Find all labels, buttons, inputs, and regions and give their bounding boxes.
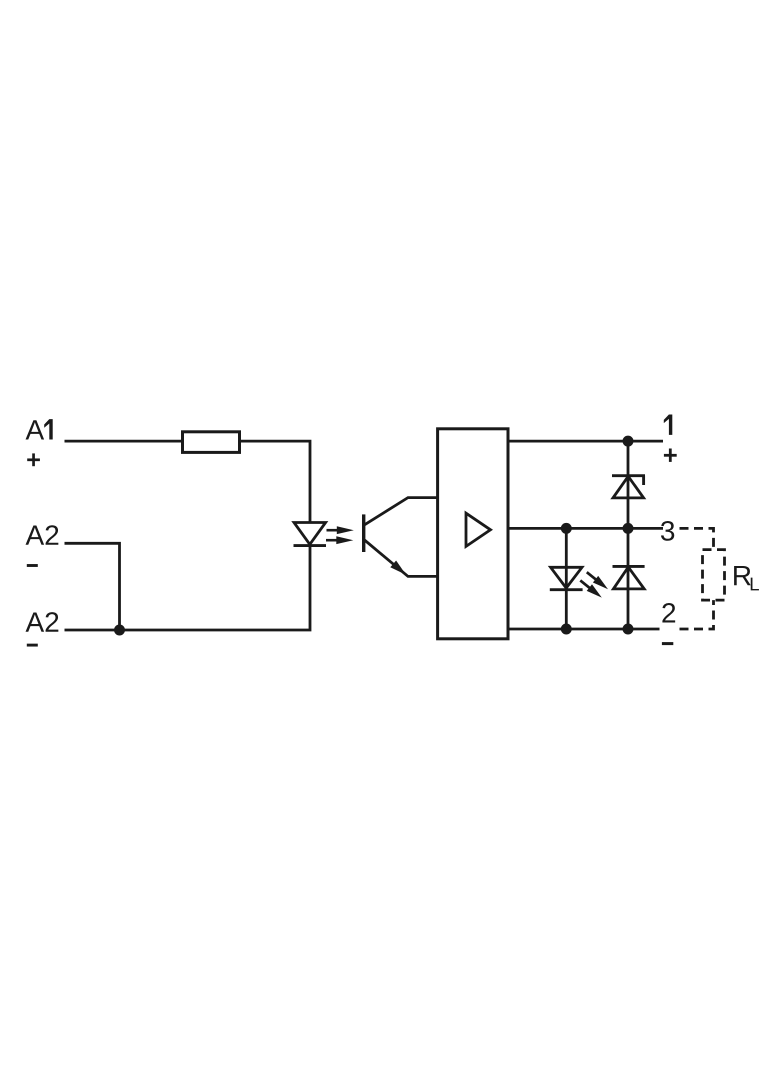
wire U1 to terminal 1 [508, 440, 663, 443]
terminal label 1 [664, 415, 673, 435]
label RL [734, 566, 751, 585]
light emission arrows of D3 [580, 572, 608, 597]
junction dot LED branch on 2 [561, 624, 572, 635]
wire U1 to terminal 3 [508, 527, 663, 530]
suppressor diode D2 between 1 and 3 [612, 441, 645, 528]
polarity + of terminal 1 [664, 449, 677, 462]
terminal label A1 [26, 419, 53, 439]
junction dot A2 rails [114, 625, 125, 636]
dashed wire from load resistor to 2 [680, 600, 714, 629]
light arrows from D1 to Q1 [326, 526, 354, 544]
phototransistor Q1 [364, 498, 438, 577]
wire A1 to resistor [65, 440, 183, 443]
wire U1 to terminal 2 [508, 628, 660, 631]
terminal label A2 upper [26, 525, 59, 545]
terminal label 2 [662, 603, 675, 623]
junction dot diode branch on 3 [623, 523, 634, 534]
polarity − of terminal 2 [662, 642, 673, 645]
junction dot LED branch on 3 [561, 523, 572, 534]
dashed wire from 3 to load resistor [680, 528, 714, 549]
indicator LED D3 between 3 and 2 [550, 528, 583, 629]
wire resistor to LED anode [240, 441, 311, 523]
terminal label 3 [661, 521, 674, 541]
wire upper A2 down to lower rail [65, 543, 120, 630]
load resistor RL dashed [703, 550, 725, 601]
junction dot diode branch on 2 [623, 624, 634, 635]
polarity − of lower A2 [27, 644, 38, 647]
polarity − of upper A2 [27, 564, 38, 567]
terminal label A2 lower [26, 612, 59, 632]
wire lower A2 to LED cathode [65, 545, 311, 630]
amplifier triangle inside U1 [466, 513, 491, 546]
LED D1 optocoupler input [294, 523, 327, 546]
resistor R1 [183, 432, 240, 453]
output stage box U1 [438, 429, 508, 639]
junction dot terminal 1 branch [623, 436, 634, 447]
diode D4 between 2 and 3 [613, 528, 645, 629]
polarity + of A1 [27, 453, 40, 466]
